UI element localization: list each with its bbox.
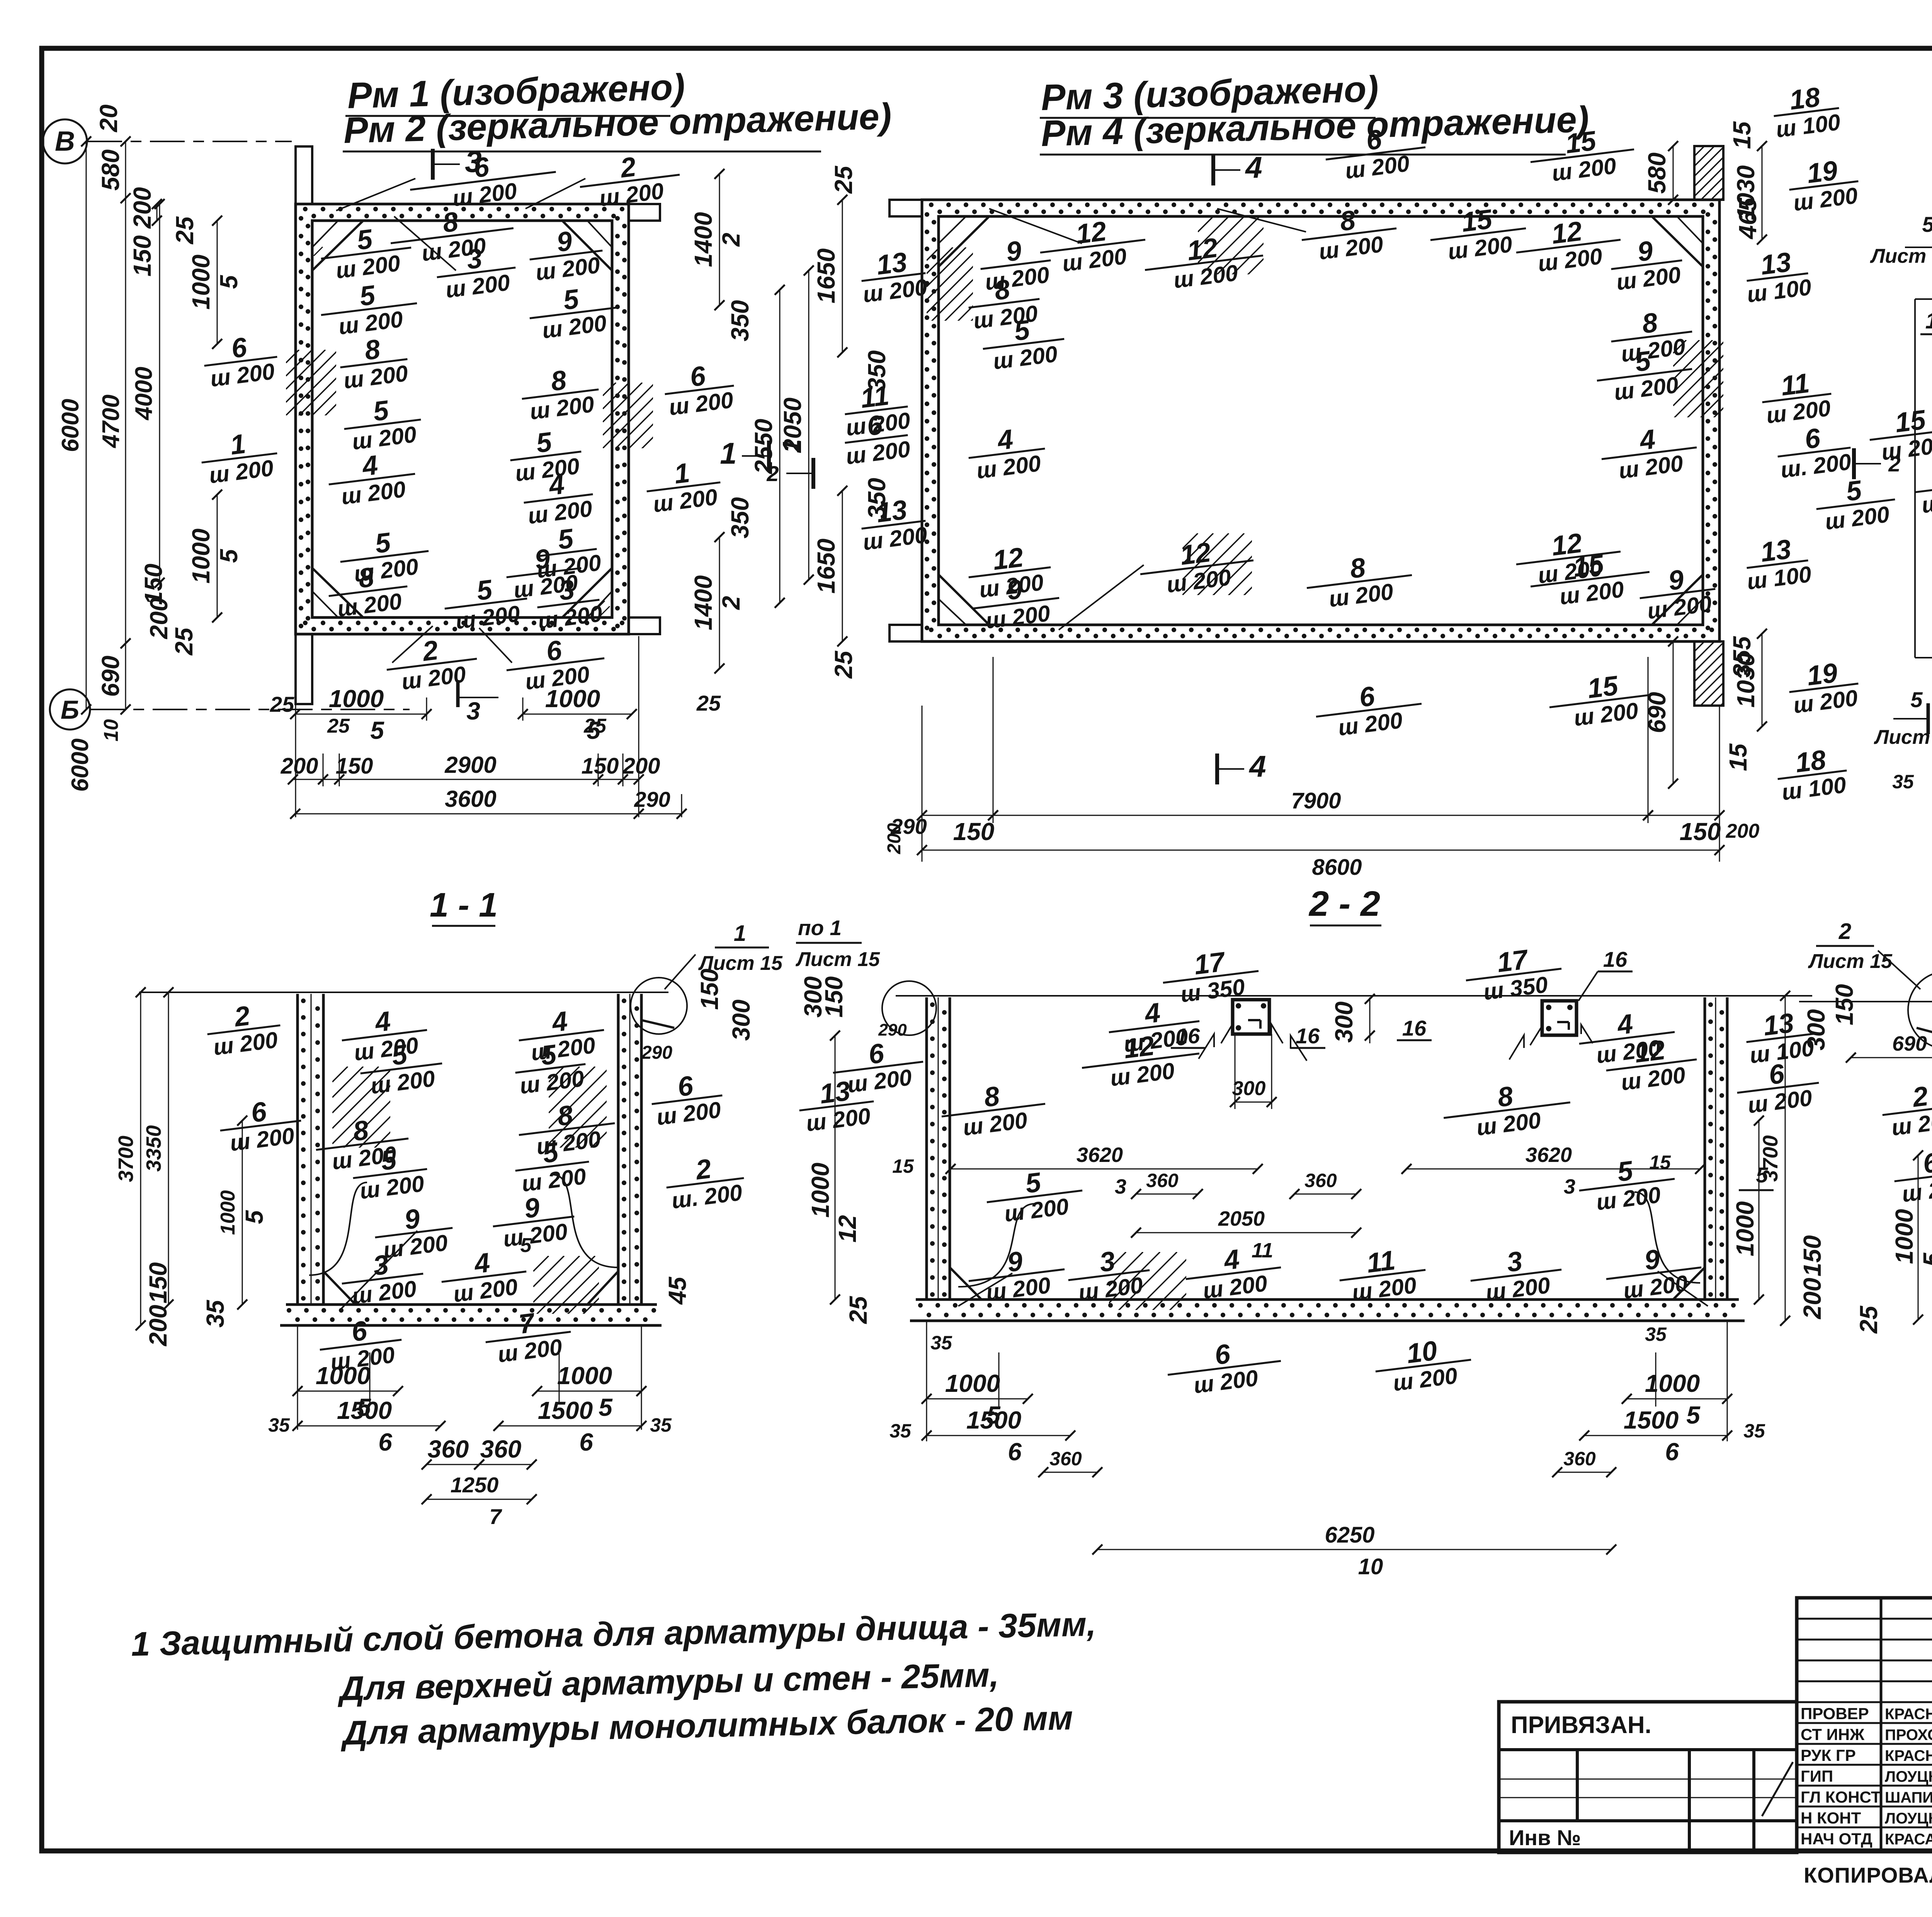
svg-text:150: 150 <box>820 976 848 1018</box>
svg-text:300: 300 <box>1802 1009 1830 1051</box>
svg-text:25: 25 <box>830 165 857 194</box>
svg-text:1: 1 <box>734 921 746 946</box>
svg-text:25: 25 <box>830 650 857 679</box>
signature table row line <box>1797 1681 1932 1682</box>
svg-text:360: 360 <box>1304 1170 1337 1191</box>
plan Rm1 inner wall outline <box>312 221 612 617</box>
svg-text:35: 35 <box>650 1414 672 1436</box>
label 11 ш200 bottom <box>1336 1242 1429 1307</box>
svg-text:1400: 1400 <box>689 575 717 630</box>
plan Rm3 right wall dots <box>1706 212 1710 217</box>
s-curve section 1-1 right <box>553 1175 618 1267</box>
label 7 ш200 under <box>482 1303 574 1369</box>
label 18 ш100 very top <box>1770 80 1842 143</box>
label 6 ш200 left out <box>1891 1143 1932 1208</box>
svg-text:5: 5 <box>1918 1252 1932 1267</box>
svg-text:ПРОВЕР: ПРОВЕР <box>1801 1704 1869 1723</box>
plan Rm3 haunch top-right <box>1652 216 1703 267</box>
dim extensions bottom Rm3 <box>922 706 923 862</box>
svg-text:7: 7 <box>489 1504 502 1529</box>
svg-text:1250: 1250 <box>451 1473 499 1497</box>
svg-text:16: 16 <box>1603 947 1628 971</box>
svg-text:12: 12 <box>1185 233 1219 267</box>
dim 2550 1 between <box>779 290 781 603</box>
svg-text:2900: 2900 <box>444 752 496 778</box>
axis line В <box>87 141 292 142</box>
section 2-2 haunch left <box>950 1267 981 1300</box>
label 6 ш200 axis left <box>201 328 281 392</box>
label 6 ш200 under <box>316 1311 405 1376</box>
svg-text:5: 5 <box>1910 687 1923 712</box>
svg-text:1000: 1000 <box>329 685 384 713</box>
section 2-2 floor dots <box>918 1303 923 1308</box>
svg-text:12: 12 <box>1550 528 1584 562</box>
section 3-3 corner circle left <box>1908 971 1932 1049</box>
s-curve section 1-1 left <box>309 1182 367 1275</box>
plan Rm3 top wall stub left <box>889 200 922 216</box>
label 3 ш200 bottom-left <box>1065 1242 1153 1307</box>
label 6 ш200 left <box>841 407 912 469</box>
svg-text:290: 290 <box>634 787 670 811</box>
label 5 ш200 left <box>980 311 1068 376</box>
section 1-1 right wall <box>617 994 620 1305</box>
svg-text:ШАПИРО: ШАПИРО <box>1885 1789 1932 1806</box>
attachment table column line <box>1688 1750 1691 1852</box>
svg-text:14: 14 <box>1925 308 1932 333</box>
svg-text:35: 35 <box>889 1420 912 1442</box>
svg-text:2: 2 <box>717 233 745 247</box>
dim 1250 7 <box>427 1499 532 1500</box>
svg-text:19: 19 <box>1805 155 1840 189</box>
section 2-2 left wall <box>925 997 928 1300</box>
label 2 ш200 below <box>383 630 480 696</box>
dim ext lines 1-1 <box>297 1325 298 1430</box>
label 12 ш200 in1 <box>1037 211 1148 279</box>
label 4 section marker bottom <box>1215 754 1219 784</box>
svg-text:3: 3 <box>466 697 480 725</box>
svg-text:КРАСНОВА: КРАСНОВА <box>1885 1747 1932 1764</box>
dim 1000 left <box>242 1121 243 1305</box>
svg-text:35: 35 <box>201 1300 229 1328</box>
label 5 ш200 right <box>512 1036 589 1099</box>
dim 2050 between <box>808 270 810 580</box>
plan Rm1 haunch top-left <box>312 221 363 270</box>
dim 200 150 left top <box>156 204 158 221</box>
svg-text:25: 25 <box>583 715 607 737</box>
label 8 ш200 left3 <box>337 331 411 394</box>
label 13 ш100 right out <box>1743 1005 1817 1068</box>
svg-text:35: 35 <box>268 1414 290 1436</box>
svg-text:690: 690 <box>97 656 124 697</box>
plan Rm1 left wall stub top <box>296 146 312 204</box>
plan Rm3 haunch bottom-right <box>1652 575 1703 625</box>
svg-text:300: 300 <box>727 1000 755 1041</box>
dim 1000 5 bottom-left <box>927 1398 1028 1400</box>
leader plan Rm3 label8 top <box>1217 209 1306 232</box>
svg-text:465: 465 <box>1734 197 1762 240</box>
dim row 150-7900-150 <box>922 815 993 816</box>
svg-text:5: 5 <box>520 1234 532 1257</box>
svg-text:25: 25 <box>170 627 198 656</box>
label 5 ш200 right2 <box>526 279 619 345</box>
dim 360 left <box>427 1464 479 1465</box>
svg-text:1000: 1000 <box>187 529 215 583</box>
label 12 ш200 bottom1 <box>965 539 1054 604</box>
label 1 ш200 right outside <box>643 454 724 518</box>
label 6 ш200 left out <box>830 1033 927 1099</box>
svg-text:1500: 1500 <box>337 1397 392 1424</box>
label 4 ш200 right mid <box>1598 419 1700 485</box>
label 5 ш200 right <box>1576 1150 1678 1217</box>
label 13 ш100 right top <box>1742 245 1813 307</box>
svg-text:5: 5 <box>1756 1163 1768 1187</box>
leader plan Rm1 label2 to wall <box>526 179 585 209</box>
label 18 ш100 right bottom <box>1774 742 1850 806</box>
dim 360 left <box>1136 1194 1198 1195</box>
svg-text:3: 3 <box>1564 1175 1575 1198</box>
section 1-1 floor dots <box>287 1308 291 1313</box>
svg-text:290: 290 <box>878 1021 907 1039</box>
svg-text:150: 150 <box>1680 818 1721 845</box>
svg-text:11: 11 <box>1779 368 1811 401</box>
svg-text:5: 5 <box>215 275 243 289</box>
label 9 ш200 bottom-left <box>372 1199 456 1264</box>
svg-text:5: 5 <box>1922 212 1932 236</box>
label 8 ш200 left <box>313 1110 412 1176</box>
svg-text:6: 6 <box>579 1428 593 1456</box>
svg-text:360: 360 <box>480 1435 522 1463</box>
label 6 ш200 below <box>503 630 608 697</box>
svg-text:ЛОУЦКЕР: ЛОУЦКЕР <box>1885 1768 1932 1785</box>
svg-text:1000: 1000 <box>545 685 600 713</box>
label 8 ш200 right <box>1608 303 1696 368</box>
svg-text:1000: 1000 <box>557 1362 612 1390</box>
svg-text:1000: 1000 <box>187 255 215 310</box>
label 6 ш200 left <box>1912 455 1932 519</box>
svg-text:3620: 3620 <box>1526 1143 1572 1167</box>
svg-text:350: 350 <box>863 478 891 519</box>
label 4 ш200 bottom <box>438 1243 530 1308</box>
leader plan Rm1 label6 to wall <box>336 179 415 211</box>
dim 3620 3 right <box>1406 1169 1700 1170</box>
svg-text:13: 13 <box>1759 534 1793 568</box>
dim row 8600 <box>922 850 1719 851</box>
title block attachment table outline <box>1499 1702 1797 1852</box>
svg-text:12: 12 <box>1074 216 1108 250</box>
dim 1000 5 bottom-left <box>298 1391 398 1392</box>
svg-text:150 200: 150 200 <box>128 187 156 276</box>
label 9 ш200 bottom1 <box>970 570 1063 635</box>
svg-text:150: 150 <box>696 969 723 1010</box>
signature table row line <box>1797 1639 1932 1641</box>
plan Rm1 bottom wall dots <box>303 621 308 625</box>
label 9 ш200 in right <box>1608 232 1685 295</box>
signature table row line <box>1797 1764 1932 1766</box>
svg-text:25: 25 <box>171 216 199 245</box>
label 6 ш.200 right <box>1774 419 1854 483</box>
section 1-1 left wall dots <box>301 998 306 1003</box>
svg-text:1030: 1030 <box>1732 653 1760 708</box>
svg-text:360: 360 <box>1049 1448 1082 1470</box>
signature table column line <box>1880 1598 1883 1851</box>
svg-text:6: 6 <box>378 1428 392 1456</box>
axis line Б <box>90 709 410 710</box>
leader plan Rm3 label12 bottom <box>1059 565 1144 630</box>
svg-text:360: 360 <box>1146 1170 1179 1191</box>
svg-text:690: 690 <box>1892 1032 1927 1055</box>
svg-text:25: 25 <box>270 692 294 716</box>
label 17 ш350 right <box>1463 940 1565 1007</box>
svg-text:Лист 15: Лист 15 <box>795 948 880 971</box>
svg-text:35: 35 <box>1892 771 1914 793</box>
section 2-2 left wall dots <box>930 1002 935 1007</box>
label 8 ш200 bottom-left <box>325 558 411 623</box>
svg-text:200: 200 <box>622 754 660 779</box>
svg-text:300: 300 <box>1232 1077 1266 1100</box>
dim 1500 6 bottom-left <box>927 1435 1070 1436</box>
label 2 ш200 left out <box>1879 1077 1932 1141</box>
dim 4000 left <box>159 204 160 583</box>
svg-text:2050: 2050 <box>1218 1207 1265 1230</box>
svg-text:15: 15 <box>1893 405 1928 439</box>
signature table row line <box>1797 1701 1932 1703</box>
label 4 ш200 right <box>515 1002 607 1067</box>
leader plan Rm1 bottom2 to wall <box>392 626 433 663</box>
section 2-2 floor <box>916 1298 1739 1301</box>
label 13 ш200 left bottom <box>858 492 929 555</box>
label 19 ш200 right bottom <box>1786 655 1862 719</box>
plan Rm1 left wall dots <box>299 216 303 221</box>
svg-text:300: 300 <box>1330 1002 1358 1043</box>
label 5 ш200 mid-right <box>512 1133 592 1197</box>
svg-text:1 - 1: 1 - 1 <box>430 886 498 924</box>
leader plan Rm1 label3 to corner <box>394 216 456 270</box>
svg-text:по 1: по 1 <box>798 916 842 940</box>
section 2-2 top line <box>896 995 1812 997</box>
svg-text:4: 4 <box>1248 749 1266 783</box>
svg-text:6250: 6250 <box>1325 1522 1374 1548</box>
label 4 ш200 right <box>1576 1004 1678 1070</box>
section 1-1 haunch left <box>323 1271 355 1305</box>
svg-text:6000: 6000 <box>57 399 84 452</box>
svg-text:200: 200 <box>1798 1278 1826 1320</box>
svg-text:360: 360 <box>1563 1448 1596 1470</box>
label 12 ш200 in2 <box>1141 227 1266 296</box>
label 5 ш200 bottom2 <box>441 570 531 635</box>
s-curve section 2-2 left <box>958 1204 1036 1287</box>
svg-text:РУК ГР: РУК ГР <box>1801 1746 1856 1764</box>
svg-text:4: 4 <box>1245 150 1262 184</box>
section 1-1 right wall dots <box>622 998 626 1003</box>
svg-text:12: 12 <box>1179 537 1213 571</box>
label 5 ш200 right4 <box>507 423 585 486</box>
dim 580 right top <box>1673 146 1674 200</box>
svg-text:4000: 4000 <box>131 367 157 421</box>
column box right <box>1542 1001 1577 1035</box>
svg-text:ПРИВЯЗАН.: ПРИВЯЗАН. <box>1511 1712 1651 1738</box>
svg-text:Инв №: Инв № <box>1509 1825 1581 1850</box>
label 13 ш200 left top <box>858 245 929 307</box>
plan Rm1 outer wall outline <box>296 204 629 634</box>
signature table row line <box>1797 1827 1932 1829</box>
label 8 ш200 left <box>938 1075 1048 1143</box>
svg-text:290: 290 <box>641 1043 672 1063</box>
plan Rm1 haunch bottom-left <box>312 568 363 617</box>
section 1-1 left wall <box>296 994 299 1305</box>
label 4 ш200 left <box>1105 993 1203 1059</box>
svg-text:13: 13 <box>1759 247 1793 281</box>
dim 3700 left <box>140 992 141 1325</box>
label 5 ш200 bottom-left <box>337 523 432 589</box>
svg-text:3600: 3600 <box>445 786 496 812</box>
label 5 ш200 row1 <box>318 219 415 285</box>
label 8 ш200 right <box>1440 1074 1573 1144</box>
svg-text:1500: 1500 <box>538 1397 593 1424</box>
dim extension lines bottom <box>295 704 296 817</box>
svg-text:Б: Б <box>61 695 79 725</box>
label 9 ш200 in1 <box>977 232 1054 295</box>
dim 1400 2 bottom between <box>719 537 720 668</box>
plan Rm3 haunch bottom-left <box>939 575 989 625</box>
label 9 ш200 bottom-right <box>490 1188 578 1253</box>
dim 1000 right rot <box>1759 1121 1760 1300</box>
svg-text:5: 5 <box>240 1210 268 1224</box>
section 2-2 right wall <box>1704 997 1706 1300</box>
signature table row line <box>1797 1722 1932 1724</box>
svg-text:1500: 1500 <box>966 1406 1021 1434</box>
svg-text:В: В <box>55 126 75 157</box>
svg-text:17: 17 <box>1495 944 1531 978</box>
label 10 ш200 under <box>1372 1331 1475 1398</box>
section 1-1 corner circle <box>631 978 687 1034</box>
svg-text:3620: 3620 <box>1077 1143 1123 1167</box>
dim 6000 left <box>86 141 87 709</box>
label 6 ш200 under <box>1164 1333 1284 1402</box>
plan Rm3 right wall stub bottom <box>1694 641 1723 706</box>
section 4-4 left form line <box>1914 299 1916 658</box>
axis circle В <box>43 119 87 163</box>
dim 690 top-left <box>1851 1057 1932 1058</box>
plan Rm1 haunch bottom-right <box>562 568 612 617</box>
label 5 ш200 left4 <box>341 391 424 455</box>
label 5 ш200 right <box>1594 340 1696 407</box>
svg-text:200: 200 <box>144 1305 172 1347</box>
axis circle Б <box>50 689 90 730</box>
svg-text:35: 35 <box>1645 1323 1667 1345</box>
label 3 ш200 bottom <box>338 1245 427 1310</box>
svg-text:13: 13 <box>875 247 909 281</box>
svg-text:6000: 6000 <box>67 738 94 792</box>
marker 5 right <box>1739 1189 1774 1191</box>
section 3-3 top line <box>1799 1001 1932 1002</box>
label 6 ш200 right out <box>1734 1055 1822 1119</box>
dim row 3600 <box>295 813 682 815</box>
dim 3700 right rot <box>1785 996 1786 1321</box>
label 15 ш200 top <box>1527 121 1637 189</box>
leader plan Rm1 bottom6 to wall <box>479 628 512 663</box>
svg-text:4700: 4700 <box>98 395 124 449</box>
svg-text:3: 3 <box>1115 1175 1126 1198</box>
svg-text:1: 1 <box>720 436 736 470</box>
label 17 ш350 left <box>1160 942 1262 1009</box>
dim 6250 10 <box>1097 1549 1611 1550</box>
svg-text:350: 350 <box>726 497 754 539</box>
svg-text:200: 200 <box>1726 820 1760 842</box>
svg-text:2 - 2: 2 - 2 <box>1308 884 1380 924</box>
svg-text:1400: 1400 <box>689 212 717 267</box>
label 5 ш200 right low <box>1813 471 1898 536</box>
svg-text:1650: 1650 <box>812 539 840 594</box>
svg-text:Н КОНТ: Н КОНТ <box>1801 1809 1861 1827</box>
label 3 section marker top <box>431 149 435 180</box>
svg-text:1000: 1000 <box>217 1190 239 1235</box>
dim 1500 6 bottom-left <box>298 1425 440 1427</box>
label 2 ш200 top <box>577 146 683 214</box>
label 8 ш200 in top <box>1298 200 1400 267</box>
svg-text:150: 150 <box>144 1262 172 1304</box>
dim 1000 5 bottom-right <box>1627 1398 1727 1400</box>
svg-text:15: 15 <box>1564 126 1599 160</box>
label 6 ш200 below <box>1313 675 1425 743</box>
svg-text:290: 290 <box>890 814 927 839</box>
plan Rm1 left wall stub bottom <box>296 634 312 704</box>
svg-text:10: 10 <box>100 719 122 742</box>
svg-text:16: 16 <box>1296 1024 1320 1048</box>
label 5 ш200 mid-left <box>350 1141 430 1204</box>
label 12 ш200 in3 <box>1513 211 1624 279</box>
label 9 ш200 bottom-right <box>1603 1239 1705 1305</box>
section 1-1 haunch right <box>587 1271 618 1305</box>
label 12 ш200 right <box>1603 1031 1700 1097</box>
dim 1000 5 left rot <box>1918 1155 1919 1320</box>
dim 2050 11 <box>1136 1232 1356 1233</box>
svg-text:1000: 1000 <box>945 1369 1000 1397</box>
svg-text:1000: 1000 <box>806 1163 834 1218</box>
plan Rm3 right wall stub top <box>1694 146 1723 200</box>
label 8 ш200 bottom2 <box>1303 547 1415 614</box>
dim 3350 left <box>168 992 169 1305</box>
svg-text:Лист 15: Лист 15 <box>1870 245 1932 267</box>
dim 1000 5 bottom-right <box>537 1391 641 1392</box>
svg-text:ПРОХОРОВА: ПРОХОРОВА <box>1885 1726 1932 1744</box>
svg-text:580: 580 <box>1643 153 1671 194</box>
svg-text:15: 15 <box>1586 670 1621 704</box>
svg-text:13: 13 <box>1762 1008 1796 1042</box>
svg-text:ГЛ КОНСТ: ГЛ КОНСТ <box>1801 1788 1881 1806</box>
plan Rm3 top wall dots <box>929 202 934 207</box>
svg-text:КРАСНОВА: КРАСНОВА <box>1885 1706 1932 1723</box>
svg-text:350: 350 <box>863 350 891 392</box>
label 6 ш200 top <box>406 143 559 216</box>
svg-text:1000: 1000 <box>316 1362 371 1390</box>
label 9 ш200 bottom-left <box>965 1241 1068 1307</box>
svg-text:15: 15 <box>1724 743 1752 771</box>
dim chain 580-4700-690 left <box>125 141 126 709</box>
attachment table row line <box>1499 1819 1797 1822</box>
svg-text:15: 15 <box>1649 1152 1671 1173</box>
svg-text:11: 11 <box>1252 1239 1273 1262</box>
svg-text:19: 19 <box>1805 658 1840 692</box>
svg-text:КОПИРОВАЛ ЛОГИНОВА: КОПИРОВАЛ ЛОГИНОВА <box>1804 1863 1932 1887</box>
label 6 ш200 right out <box>648 1067 726 1130</box>
label 12 ш200 bottom3 <box>1513 523 1624 591</box>
label 12 ш200 left <box>1078 1025 1202 1094</box>
plan Rm3 inner wall outline <box>939 216 1703 625</box>
label 4 ш200 bottom-mid <box>1182 1239 1284 1305</box>
label 3 section marker bottom <box>456 680 460 707</box>
svg-text:17: 17 <box>1192 946 1228 980</box>
label 1 ш200 axis left <box>198 425 281 489</box>
